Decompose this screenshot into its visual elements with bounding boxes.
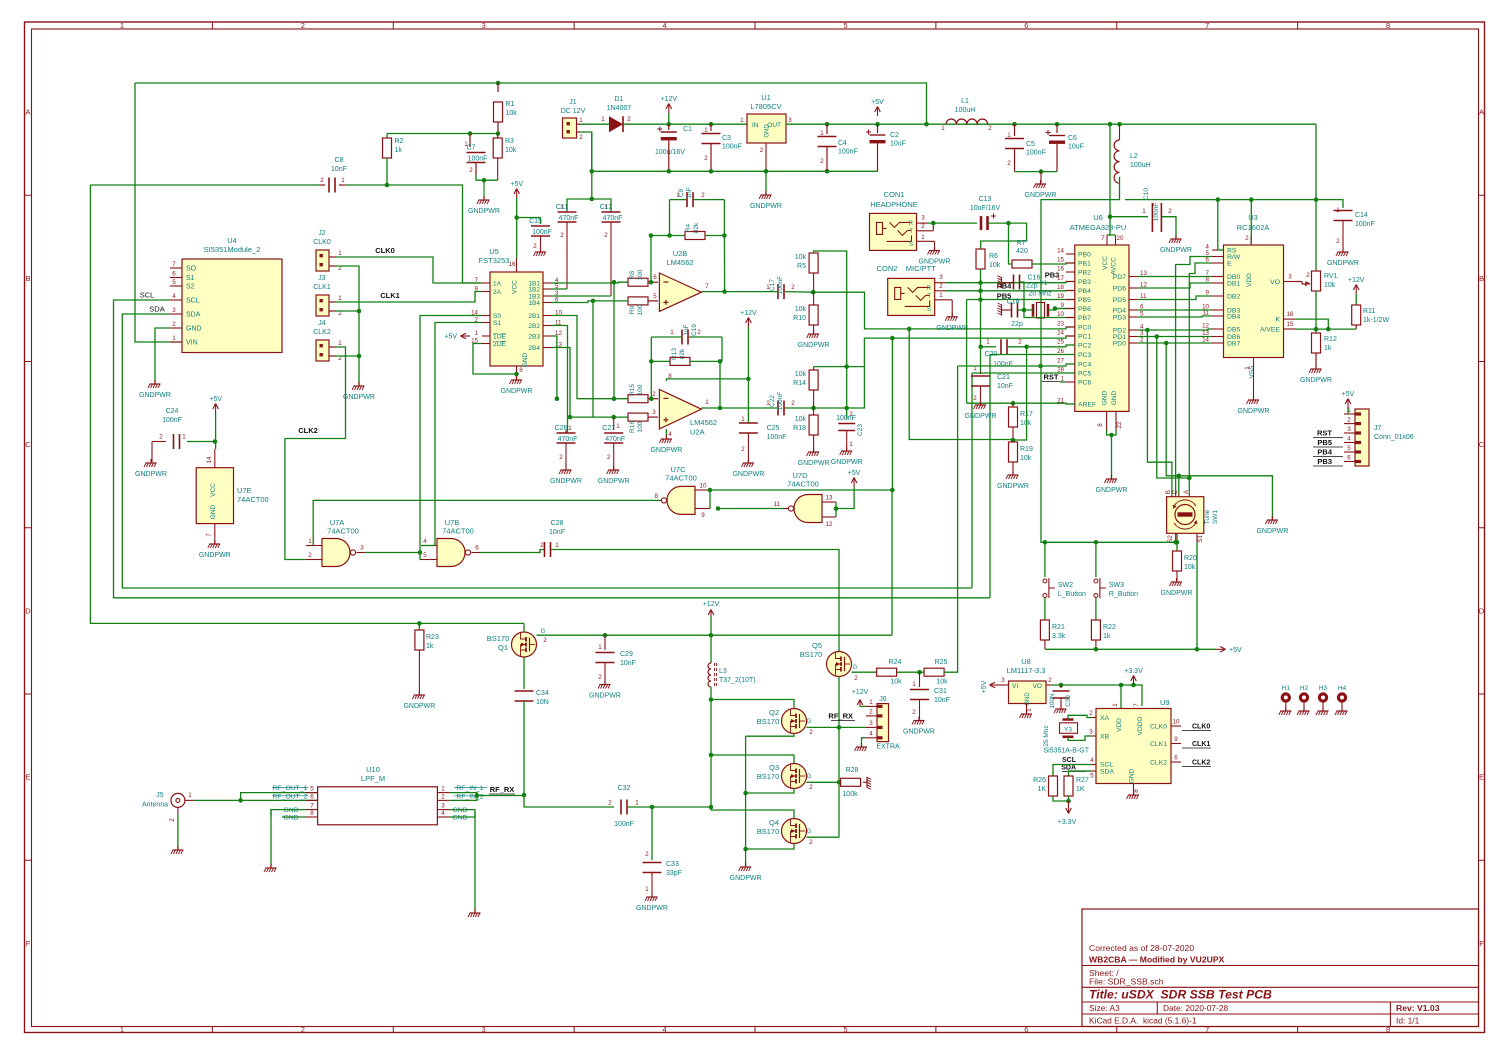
svg-text:+5V: +5V: [848, 470, 861, 477]
svg-text:1: 1: [338, 295, 342, 302]
U10 pin 5: [306, 792, 318, 794]
svg-text:3: 3: [482, 1025, 486, 1034]
svg-text:GND: GND: [1025, 692, 1031, 706]
wire: [386, 134, 388, 140]
svg-text:GNDPWR: GNDPWR: [732, 471, 764, 478]
junction: [1195, 647, 1200, 652]
svg-text:E: E: [1227, 261, 1232, 268]
junction C23: [844, 406, 849, 411]
capacitor C9 1nF: [670, 199, 687, 201]
junction: [649, 233, 654, 238]
U6 pin 13 PD7: [1129, 276, 1138, 278]
svg-text:3: 3: [788, 117, 792, 124]
wire: [336, 355, 359, 357]
svg-text:2: 2: [988, 125, 992, 132]
svg-text:PD0: PD0: [1113, 341, 1126, 348]
svg-text:74ACT00: 74ACT00: [665, 474, 697, 483]
svg-text:GNDPWR: GNDPWR: [1327, 260, 1359, 267]
wire riser PD1 to E feed: [1157, 337, 1190, 479]
svg-text:1: 1: [766, 400, 770, 407]
svg-text:2B1: 2B1: [528, 313, 540, 320]
wire U3 VDD feed: [1250, 200, 1252, 245]
power +5V: [1216, 648, 1224, 650]
wire: [650, 236, 652, 283]
junction C32 line: [709, 805, 714, 810]
svg-text:C16: C16: [1028, 275, 1041, 282]
svg-text:MIC/PTT: MIC/PTT: [906, 264, 936, 273]
U3 pin 12 DB5: [1212, 328, 1224, 330]
svg-text:2: 2: [741, 446, 745, 453]
svg-text:5: 5: [1347, 445, 1351, 452]
junction Q2 gate: [837, 725, 842, 730]
U3 K pin 16: [1284, 318, 1297, 320]
wire J7 pin1 +5V: [1347, 408, 1349, 414]
svg-text:1: 1: [338, 340, 342, 347]
svg-text:PB0: PB0: [1078, 252, 1091, 259]
junction C18/Y1: [1022, 308, 1027, 313]
svg-text:BS170: BS170: [757, 717, 780, 726]
svg-text:CLK1: CLK1: [1192, 741, 1210, 748]
wire C10 to ground: [1161, 217, 1176, 238]
svg-text:1: 1: [341, 177, 345, 184]
power +3.3V: [1133, 677, 1135, 685]
junction Q3 drain: [709, 753, 714, 758]
svg-text:Title: uSDX SDR SSB Test PCB: Title: uSDX SDR SSB Test PCB: [1089, 988, 1272, 1002]
svg-text:Date: 2020-07-28: Date: 2020-07-28: [1163, 1003, 1229, 1013]
svg-text:1B4: 1B4: [528, 300, 540, 307]
U6 pin 5 PD3: [1129, 316, 1138, 318]
wire J1 pin2 node to C11/C12 rail: [592, 132, 611, 212]
svg-text:4: 4: [441, 810, 445, 817]
svg-text:+12V: +12V: [661, 96, 678, 103]
svg-text:9: 9: [1061, 302, 1065, 309]
svg-text:2: 2: [533, 243, 537, 250]
wire +12V down to C25: [747, 327, 749, 423]
ground GNDPWR under C21: [974, 401, 987, 409]
svg-text:Si5351A-B-GT: Si5351A-B-GT: [1044, 748, 1090, 755]
resistor R23 body: [415, 630, 424, 650]
svg-text:15: 15: [1057, 257, 1064, 264]
svg-text:PD4: PD4: [1113, 308, 1126, 315]
svg-text:GND: GND: [452, 815, 467, 822]
svg-text:100nF: 100nF: [767, 434, 787, 441]
wire PB6 stub: [1055, 308, 1066, 310]
svg-text:1k: 1k: [426, 643, 434, 650]
ground GNDPWR: [477, 196, 490, 204]
wire PD2 to DB5: [1138, 329, 1212, 330]
svg-text:GND: GND: [765, 124, 771, 138]
svg-text:3: 3: [1089, 729, 1093, 736]
ground GNDPWR under C23: [840, 447, 853, 455]
svg-text:100nF: 100nF: [1355, 221, 1375, 228]
svg-text:Rev: V1.03: Rev: V1.03: [1396, 1003, 1440, 1013]
svg-text:File: SDR_SSB.sch: File: SDR_SSB.sch: [1089, 977, 1164, 987]
wire C18 node to PB7: [1018, 309, 1024, 311]
svg-text:R: R: [909, 221, 914, 227]
wire riser to SW1 C and ground: [1166, 343, 1179, 494]
NAND gate U7D body: [794, 495, 822, 523]
ground GNDPWR sources: [739, 863, 752, 871]
junction: [1039, 169, 1044, 174]
svg-text:100nF: 100nF: [777, 276, 784, 294]
junction U7C inputs: [708, 488, 713, 493]
svg-text:74ACT00: 74ACT00: [787, 480, 819, 489]
svg-text:22p: 22p: [1026, 283, 1038, 290]
svg-text:C31: C31: [934, 688, 947, 695]
svg-text:CLK0: CLK0: [1150, 724, 1167, 731]
junction C1/+12V: [667, 122, 672, 127]
wire PD6 to DB1: [1138, 283, 1212, 288]
svg-text:GND: GND: [210, 504, 217, 519]
svg-text:C5: C5: [1026, 141, 1035, 148]
wire R2 bottom to C8: [386, 158, 388, 185]
ground left of C18: [998, 303, 1006, 316]
junction +3.3V arrow: [1131, 683, 1136, 688]
svg-text:8: 8: [1386, 21, 1390, 30]
junction: [357, 309, 362, 314]
svg-text:BS170: BS170: [757, 772, 780, 781]
svg-text:74ACT00: 74ACT00: [237, 495, 269, 504]
svg-text:6: 6: [1174, 755, 1178, 762]
ground GNDPWR: [659, 435, 672, 443]
U6 pin 21 AREF: [1066, 403, 1075, 405]
junction C20 right: [1024, 345, 1029, 350]
U10 pin 7: [306, 809, 318, 811]
wire: [1176, 542, 1178, 551]
svg-text:1: 1: [120, 1025, 124, 1034]
svg-text:R26: R26: [1033, 777, 1046, 784]
U6 pin 1 PC6: [1066, 381, 1075, 383]
capacitor C31 10nF: [919, 672, 921, 687]
svg-text:D: D: [25, 606, 31, 615]
wire: [1355, 294, 1357, 305]
svg-text:Q4: Q4: [769, 818, 779, 827]
junction C17/R5/R10: [811, 290, 816, 295]
svg-text:R24: R24: [889, 659, 902, 666]
wire: [613, 282, 615, 399]
svg-text:GNDPWR: GNDPWR: [997, 483, 1029, 490]
capacitor C18 plates: [1012, 303, 1018, 318]
capacitor C29 plates: [596, 653, 615, 663]
U6 pin 14 PB0: [1066, 253, 1075, 255]
svg-text:74ACT00: 74ACT00: [327, 527, 359, 536]
capacitor C12 plates: [602, 212, 621, 222]
svg-text:IN: IN: [752, 122, 759, 129]
wire top +12V feed horizontal: [135, 83, 927, 124]
svg-text:PB7: PB7: [1078, 315, 1091, 322]
ground GNDPWR: [1034, 180, 1047, 188]
svg-text:20: 20: [1117, 235, 1124, 242]
svg-text:1: 1: [676, 192, 680, 199]
junction RF_RX node: [522, 793, 527, 798]
svg-text:K: K: [1275, 317, 1280, 324]
transistor Q4 BS170 body: [782, 819, 807, 844]
svg-text:C33: C33: [666, 861, 679, 868]
junction U2B feedback: [722, 289, 727, 294]
junction C31: [917, 670, 922, 675]
svg-text:5: 5: [310, 786, 314, 793]
junction ground return: [590, 169, 595, 174]
wire SW2 bottom to R21: [1044, 598, 1046, 621]
junction: [718, 359, 723, 364]
Q2 gate wire: [807, 726, 840, 728]
CON2 pin 1: [935, 299, 953, 301]
svg-text:GND: GND: [283, 807, 298, 814]
capacitor C20 plates: [1001, 339, 1007, 354]
svg-text:GNDPWR: GNDPWR: [403, 703, 435, 710]
svg-text:SDA: SDA: [149, 305, 164, 314]
svg-text:100nF: 100nF: [722, 144, 742, 151]
svg-text:R_Button: R_Button: [1109, 591, 1138, 598]
svg-text:GNDPWR: GNDPWR: [1256, 528, 1288, 535]
svg-text:16: 16: [509, 261, 516, 268]
U6 pin 17 PB3: [1066, 281, 1075, 283]
svg-text:1: 1: [740, 117, 744, 124]
svg-text:1: 1: [172, 335, 176, 342]
connector J4 body: [316, 340, 329, 361]
svg-text:GNDPWR: GNDPWR: [139, 392, 171, 399]
inductor L1 coil: [946, 119, 988, 124]
svg-text:GNDPWR: GNDPWR: [1096, 487, 1128, 494]
resistor R7 body: [1012, 260, 1032, 268]
J6 pin 3: [866, 726, 877, 728]
svg-text:CLK2: CLK2: [313, 329, 331, 336]
J7 pin 2: [1344, 423, 1355, 425]
svg-text:U10: U10: [366, 765, 380, 774]
ground GNDPWR under C29: [598, 681, 611, 689]
svg-text:GNDPWR: GNDPWR: [936, 325, 968, 332]
wire Q3 source: [746, 789, 794, 794]
junction R7 feed: [1006, 221, 1011, 226]
svg-text:R28: R28: [846, 767, 859, 774]
svg-text:R1: R1: [506, 101, 515, 108]
junction RF_OUT split: [238, 798, 243, 803]
U3 pin 10 DB3: [1212, 309, 1224, 311]
svg-text:U4: U4: [227, 236, 237, 245]
svg-text:J7: J7: [1374, 425, 1382, 432]
svg-text:1: 1: [555, 542, 559, 549]
CON1 pin 2: [917, 230, 934, 232]
svg-text:10k: 10k: [1020, 420, 1032, 427]
junction U7A out fork: [418, 550, 423, 555]
svg-text:10k: 10k: [795, 371, 807, 378]
svg-text:FST3253: FST3253: [479, 256, 510, 265]
svg-text:R27: R27: [1076, 777, 1089, 784]
junction: [764, 169, 769, 174]
svg-text:10k: 10k: [795, 416, 807, 423]
svg-text:VCC: VCC: [1102, 256, 1109, 270]
ground under H3: [1316, 707, 1329, 715]
U3 pin 13 DB6: [1212, 336, 1224, 338]
svg-text:2: 2: [469, 167, 473, 174]
svg-text:GNDPWR: GNDPWR: [636, 905, 668, 912]
capacitor C14 plates: [1334, 211, 1353, 221]
ground GNDPWR: [148, 380, 161, 388]
svg-text:S1: S1: [493, 320, 501, 327]
ground under C30: [1054, 705, 1067, 713]
wire U7B output to C28: [480, 550, 544, 553]
svg-text:S: S: [927, 307, 931, 313]
U9 XA pin 2: [1087, 717, 1096, 719]
resistor R21 body: [1040, 620, 1049, 640]
svg-text:1: 1: [741, 416, 745, 423]
junction CON1 R/T: [931, 221, 936, 226]
junction C29: [603, 633, 608, 638]
U6 pin 27 PC4: [1066, 363, 1075, 365]
svg-text:6: 6: [310, 793, 314, 800]
U5 pin 12 2B3: [543, 335, 551, 337]
NAND gate U7C body: [667, 486, 695, 514]
ground under U9: [1127, 791, 1140, 799]
wire J1 pin2 ground return: [580, 132, 592, 171]
svg-text:GND: GND: [1129, 768, 1136, 783]
wire: [723, 200, 725, 236]
U2 power pin 4 ground: [665, 429, 667, 438]
svg-text:BS170: BS170: [800, 650, 823, 659]
svg-text:PD6: PD6: [1113, 286, 1126, 293]
svg-text:L_Button: L_Button: [1058, 591, 1086, 598]
junction: [743, 791, 748, 796]
resistor R18 body: [809, 415, 818, 435]
ground GNDPWR under C14: [1336, 248, 1349, 256]
ground GNDPWR under C25: [741, 459, 754, 467]
junction R1 top: [496, 81, 501, 86]
svg-text:GND: GND: [522, 352, 529, 367]
svg-text:25 Mhz: 25 Mhz: [1043, 725, 1050, 746]
wire R5 top to R14 bus: [814, 251, 847, 367]
resistor R25 body: [924, 668, 944, 676]
svg-text:R21: R21: [1052, 624, 1065, 631]
junction: [649, 359, 654, 364]
svg-text:VCC: VCC: [210, 483, 217, 497]
svg-text:C10: C10: [1143, 188, 1150, 200]
svg-text:R2: R2: [395, 138, 404, 145]
svg-text:7: 7: [475, 277, 479, 284]
svg-text:1k-1/2W: 1k-1/2W: [1363, 317, 1389, 324]
wire: [846, 367, 848, 419]
svg-text:1: 1: [188, 792, 192, 799]
svg-text:GNDPWR: GNDPWR: [550, 478, 582, 485]
svg-text:G: G: [853, 665, 858, 671]
resistor R12 body: [1312, 333, 1321, 353]
svg-text:1k: 1k: [1103, 633, 1111, 640]
svg-text:VDD: VDD: [1116, 718, 1123, 732]
svg-text:RF_OUT_1: RF_OUT_1: [273, 785, 308, 792]
junction: [1066, 799, 1071, 804]
wire: [723, 236, 725, 292]
ground GNDPWR under C27: [607, 466, 620, 474]
svg-text:DC 12V: DC 12V: [561, 108, 586, 115]
svg-text:U3: U3: [1248, 213, 1258, 222]
svg-text:BS170: BS170: [757, 827, 780, 836]
U7E GND pin 7: [214, 524, 216, 543]
svg-text:SDA: SDA: [186, 312, 201, 319]
U3 pin 11 DB4: [1212, 315, 1224, 317]
svg-text:CON1: CON1: [884, 190, 905, 199]
wire C22 output to R14/R18 node: [785, 407, 814, 409]
resistor R20 body: [1173, 551, 1182, 571]
svg-text:RC1602A: RC1602A: [1237, 223, 1270, 232]
wire C8 node to U5 input: [387, 185, 482, 283]
ground GNDPWR under C5/C6: [1040, 172, 1042, 183]
U6 pin 10 PB7: [1066, 317, 1075, 319]
svg-text:4: 4: [668, 431, 672, 438]
junction R9 input: [591, 299, 596, 304]
svg-text:10: 10: [700, 483, 707, 490]
SW1 bottom pins S2 S1: [1176, 533, 1178, 542]
wire RS drop from AVCC rail: [1218, 200, 1224, 250]
U9 XB pin 3: [1087, 735, 1096, 737]
svg-text:10nF: 10nF: [331, 166, 347, 173]
power +12V: [747, 319, 749, 327]
wire K jog to A/VEE line: [1296, 319, 1328, 329]
svg-text:GNDPWR: GNDPWR: [589, 693, 621, 700]
svg-text:2: 2: [809, 729, 813, 736]
connector J2 body: [316, 250, 329, 271]
svg-text:3: 3: [652, 409, 656, 416]
svg-text:8: 8: [310, 810, 314, 817]
svg-text:B: B: [25, 274, 30, 283]
wire C10 feed: [1110, 216, 1148, 218]
svg-text:GNDPWR: GNDPWR: [1238, 408, 1270, 415]
CON1 pin 3: [917, 222, 929, 224]
Q1 gate line: [537, 634, 893, 636]
U8 VI pin 3: [999, 684, 1009, 686]
svg-text:Antenna: Antenna: [142, 802, 168, 809]
svg-text:1: 1: [912, 681, 916, 688]
svg-text:PB1: PB1: [1078, 261, 1091, 268]
junction C5: [1012, 122, 1017, 127]
U6 pin 23 PC0: [1066, 326, 1075, 328]
capacitor C1 100u/16V: [668, 124, 670, 130]
svg-text:G: G: [807, 774, 812, 780]
svg-text:CLK0: CLK0: [1192, 724, 1210, 731]
ground right of R28: [863, 777, 871, 790]
power +12V: [668, 105, 670, 113]
junction SW1 S2: [1175, 540, 1180, 545]
svg-text:10k: 10k: [505, 147, 517, 154]
resistor R4 body: [685, 232, 705, 240]
svg-text:1: 1: [1336, 207, 1340, 214]
svg-text:2A: 2A: [493, 289, 502, 296]
wire C32 to drain rail: [628, 806, 711, 808]
wire CON1 to C13: [928, 222, 977, 224]
svg-text:RF_RX: RF_RX: [490, 785, 515, 794]
resistor R4 82k: [651, 235, 685, 237]
wire PD4 to DB3: [1138, 309, 1212, 311]
svg-text:1: 1: [635, 800, 639, 807]
junction C15 branch: [514, 215, 519, 220]
junction L2: [1117, 122, 1122, 127]
svg-text:+5V: +5V: [871, 99, 884, 106]
junction: [1109, 433, 1114, 438]
svg-text:PC1: PC1: [1078, 334, 1091, 341]
svg-text:C34: C34: [536, 690, 549, 697]
svg-text:D: D: [1479, 606, 1485, 615]
svg-text:1: 1: [120, 21, 124, 30]
wire +5V to U7E VCC: [215, 413, 217, 449]
wire PB5 riser to AREF line: [966, 300, 968, 404]
wire L3 bottom to Q2/Q3/Q4 drains: [711, 687, 794, 819]
wire riser to SW1 B: [1147, 330, 1172, 494]
J7 pin 5: [1344, 451, 1355, 453]
wire CLK1 to U5 2A: [336, 292, 482, 303]
wire C5/C6 ground tie: [1015, 171, 1058, 173]
svg-text:18: 18: [1057, 284, 1064, 291]
resistor R13 body: [670, 357, 690, 365]
svg-text:Q5: Q5: [812, 641, 822, 650]
svg-text:+5V: +5V: [209, 396, 222, 403]
